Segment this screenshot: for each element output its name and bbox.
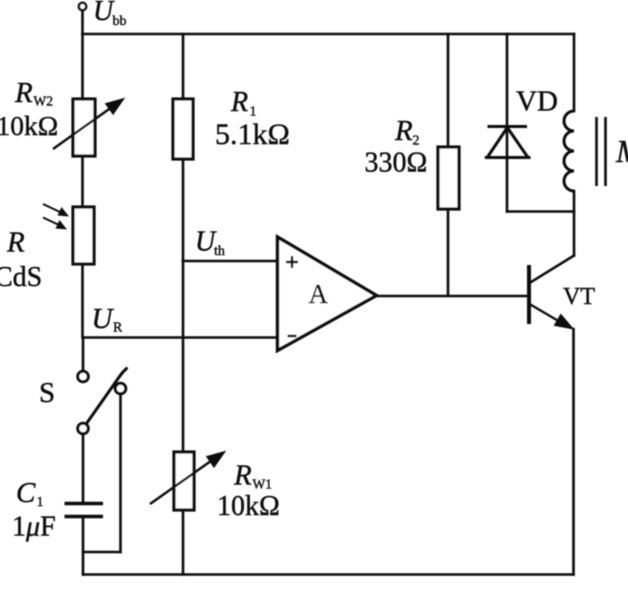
svg-text:330Ω: 330Ω [365, 148, 428, 179]
svg-text:A: A [309, 279, 329, 309]
svg-text:CdS: CdS [0, 262, 42, 293]
svg-text:R: R [6, 227, 25, 259]
svg-text:M: M [615, 133, 628, 169]
svg-text:10kΩ: 10kΩ [0, 110, 58, 141]
svg-text:W2: W2 [34, 94, 54, 109]
svg-text:R: R [230, 87, 248, 118]
svg-text:bb: bb [113, 14, 127, 29]
svg-text:5.1kΩ: 5.1kΩ [215, 118, 290, 151]
svg-text:R: R [394, 115, 413, 147]
svg-text:th: th [214, 244, 225, 259]
svg-text:R: R [113, 321, 123, 336]
svg-text:10kΩ: 10kΩ [217, 491, 280, 522]
svg-text:C: C [16, 477, 36, 509]
svg-text:R: R [233, 460, 252, 492]
svg-text:1: 1 [37, 495, 44, 510]
svg-text:VD: VD [516, 86, 558, 118]
svg-text:W1: W1 [253, 477, 273, 492]
svg-text:S: S [39, 377, 55, 409]
svg-text:VT: VT [563, 284, 595, 310]
svg-text:2: 2 [413, 134, 420, 149]
svg-text:R: R [14, 77, 33, 109]
svg-text:U: U [92, 303, 115, 335]
svg-text:1μF: 1μF [12, 512, 56, 543]
